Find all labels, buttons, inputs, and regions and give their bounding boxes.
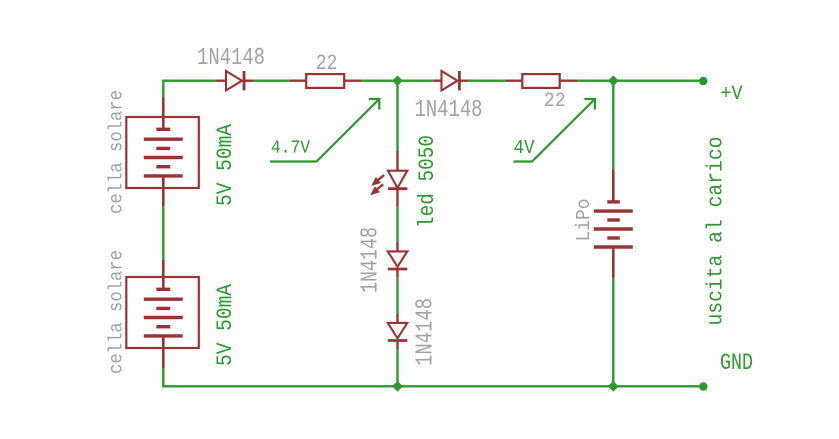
wire LiPo to bottom rail xyxy=(612,278,614,387)
svg-text:5V 50mA: 5V 50mA xyxy=(213,123,238,206)
junction node top mid xyxy=(393,76,402,85)
wire top rail segment 5 xyxy=(577,79,703,81)
wire bottom rail xyxy=(163,385,703,387)
wire left column bottom xyxy=(162,368,164,388)
svg-text:cella solare: cella solare xyxy=(106,250,128,374)
svg-text:4.7V: 4.7V xyxy=(271,139,310,159)
wire top rail segment 1 xyxy=(163,79,217,81)
svg-text:LiPo: LiPo xyxy=(573,199,595,242)
annotation 4V arrow xyxy=(514,99,595,162)
diode D4 xyxy=(388,314,408,349)
svg-text:+V: +V xyxy=(721,83,744,106)
junction node bottom right xyxy=(609,382,618,391)
svg-text:1N4148: 1N4148 xyxy=(197,45,265,72)
svg-text:5V 50mA: 5V 50mA xyxy=(213,283,238,366)
wire top rail segment 2 xyxy=(254,79,293,81)
resistor R2 xyxy=(506,74,577,88)
LED light arrow 2 xyxy=(371,184,383,194)
wire mid branch junction to LED xyxy=(396,81,398,151)
svg-text:22: 22 xyxy=(316,51,338,76)
wire diode D4 to bottom rail xyxy=(396,349,398,386)
diode D3 xyxy=(388,242,408,278)
wire between solar cells xyxy=(162,206,164,260)
diode D2 xyxy=(433,71,468,90)
svg-text:1N4148: 1N4148 xyxy=(413,298,440,366)
wire junction to LiPo xyxy=(612,81,614,170)
terminal pin +V xyxy=(699,77,707,85)
LED LED1 xyxy=(388,151,407,207)
terminal pin GND xyxy=(699,382,707,390)
junction node top right xyxy=(609,76,618,85)
wire LED to diode D3 xyxy=(396,207,398,242)
svg-text:4V: 4V xyxy=(514,137,536,159)
svg-text:uscita al carico: uscita al carico xyxy=(704,137,729,326)
solar cell G2 box xyxy=(126,277,199,348)
resistor R1 xyxy=(290,74,361,88)
wire top rail segment 3 xyxy=(361,79,433,81)
svg-text:22: 22 xyxy=(544,90,566,113)
svg-text:cella solare: cella solare xyxy=(106,90,128,214)
wire diode D3 to diode D4 xyxy=(396,277,398,314)
wire left column top xyxy=(162,80,164,99)
diode D1 xyxy=(217,71,254,90)
LED light arrow 1 xyxy=(372,175,384,185)
svg-text:GND: GND xyxy=(720,350,753,376)
svg-text:1N4148: 1N4148 xyxy=(358,227,385,293)
svg-text:led 5050: led 5050 xyxy=(415,135,440,228)
solar cell G1 box xyxy=(126,117,199,188)
battery LiPo xyxy=(594,170,633,278)
wire top rail segment 4 xyxy=(469,79,506,81)
solar cell G2 battery symbol xyxy=(144,260,183,368)
junction node bottom mid xyxy=(393,382,402,391)
solar cell G1 battery symbol xyxy=(144,98,183,207)
svg-text:1N4148: 1N4148 xyxy=(415,97,483,124)
annotation 4.7V arrow xyxy=(270,99,379,162)
